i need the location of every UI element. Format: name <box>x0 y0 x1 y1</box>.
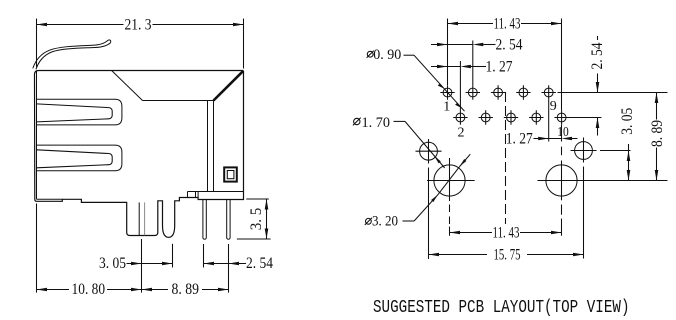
svg-text:8. 89: 8. 89 <box>649 120 666 147</box>
dim 10.80 text <box>72 281 106 298</box>
top chamfer left diagonal <box>112 71 143 101</box>
svg-text:11. 43: 11. 43 <box>494 15 521 32</box>
svg-text:2. 54: 2. 54 <box>589 43 606 70</box>
center line mounting right <box>583 138 585 259</box>
dim 15.75 text <box>494 246 521 263</box>
svg-text:3. 5: 3. 5 <box>248 208 265 231</box>
svg-text:2. 54: 2. 54 <box>246 255 273 272</box>
dim 3.05 right text <box>619 108 636 135</box>
svg-text:10. 80: 10. 80 <box>72 281 106 298</box>
dim 11.43 top <box>448 22 562 26</box>
pin label 2 <box>458 126 465 141</box>
dim 2.54 right text <box>589 43 606 70</box>
pin label 1 <box>443 100 450 115</box>
pin 2 (right solder pin) <box>227 200 230 240</box>
center line col hole10 big hole right <box>561 19 563 236</box>
pcb center line <box>505 92 507 224</box>
center line big hole left <box>449 158 451 236</box>
label dia 1.70 text <box>362 115 391 131</box>
svg-text:15. 75: 15. 75 <box>494 246 521 263</box>
row1 extension line right <box>558 92 668 94</box>
top chamfer right thick diagonal <box>214 71 244 100</box>
PCB hole row 1 <box>440 85 556 99</box>
dim 1.27 bottom <box>534 137 578 141</box>
svg-text:9: 9 <box>550 99 557 114</box>
svg-text:3. 05: 3. 05 <box>619 108 636 135</box>
svg-text:21. 3: 21. 3 <box>125 17 152 34</box>
shield vent square <box>224 167 237 181</box>
EMI spring finger <box>33 40 111 69</box>
label dia 3.20 text <box>372 214 398 230</box>
center line col hole2 <box>459 61 461 110</box>
dim 8.89 left text <box>172 281 200 298</box>
label dia 0.90 <box>367 51 465 112</box>
svg-text:1: 1 <box>443 100 450 115</box>
latch slot lower <box>37 145 122 171</box>
mounting hole 1.70 left <box>416 142 442 160</box>
big hole 3.20 right <box>546 165 577 196</box>
caption SUGGESTED PCB LAYOUT(TOP VIEW) <box>373 298 630 318</box>
svg-text:1. 27: 1. 27 <box>486 59 513 76</box>
svg-text:8. 89: 8. 89 <box>172 281 200 298</box>
pin label 9 <box>550 99 557 114</box>
dim 11.43 top text <box>494 15 521 32</box>
center line col hole2 row1 <box>472 41 474 86</box>
dim 2.54 top text <box>496 36 523 53</box>
PCB hole row 2 <box>453 110 569 124</box>
dim 2.54 top <box>431 43 496 47</box>
hole10 extension line right <box>566 117 602 119</box>
mounting hole 1.70 right <box>571 142 597 160</box>
dim 1.27 top text <box>486 59 513 76</box>
svg-text:2. 54: 2. 54 <box>496 36 523 53</box>
center line col hole9 <box>548 100 550 142</box>
svg-text:11. 43: 11. 43 <box>493 225 520 242</box>
big hole 3.20 left <box>427 165 475 196</box>
big hole right extension line <box>538 180 668 182</box>
dim 3.5 <box>237 199 271 239</box>
dim 1.27 bottom text <box>506 130 533 147</box>
dim 2.54 left text <box>246 255 273 272</box>
dim 21.3 text <box>125 17 152 34</box>
base flange <box>188 192 244 198</box>
dim 3.05 left <box>127 239 173 293</box>
dim 11.43 bottom <box>450 231 562 235</box>
body inner left face line <box>37 71 63 199</box>
dim 15.75 <box>429 253 584 257</box>
mounting right extension line <box>600 150 631 152</box>
latch slot upper <box>37 99 122 125</box>
dim 10.80 <box>37 204 169 293</box>
pin label 10 <box>557 125 569 140</box>
top face edge line <box>143 100 214 102</box>
dim 2.54 left <box>204 244 247 293</box>
label dia 1.70 <box>353 118 445 168</box>
dim 8.89 left view <box>142 288 229 292</box>
svg-text:1. 27: 1. 27 <box>506 130 533 147</box>
dim 2.54 right <box>596 36 600 136</box>
back panel vertical lines <box>208 101 214 192</box>
dim 11.43 bottom text <box>493 225 520 242</box>
dim 3.05 left text <box>99 255 126 272</box>
dim 8.89 right text <box>649 120 666 147</box>
center line mounting left <box>428 139 430 259</box>
center line col hole1 <box>447 19 449 86</box>
svg-text:0. 90: 0. 90 <box>373 47 401 63</box>
svg-text:2: 2 <box>458 126 465 141</box>
svg-text:3. 20: 3. 20 <box>372 214 398 230</box>
post inner lines <box>139 202 144 235</box>
dim 3.5 text <box>248 208 265 231</box>
dim 3.05 right <box>627 144 631 181</box>
svg-text:3. 05: 3. 05 <box>99 255 126 272</box>
pin 1 (left solder pin) <box>203 200 206 240</box>
svg-text:1. 70: 1. 70 <box>362 115 391 131</box>
label dia 3.20 <box>365 154 471 225</box>
dim 21.3 <box>37 19 244 69</box>
label dia 0.90 text <box>373 47 401 63</box>
connector body outline <box>35 71 244 238</box>
dim 8.89 right <box>655 93 659 181</box>
dim 1.27 top <box>431 65 486 69</box>
svg-text:SUGGESTED PCB LAYOUT(TOP VIEW): SUGGESTED PCB LAYOUT(TOP VIEW) <box>373 298 630 318</box>
